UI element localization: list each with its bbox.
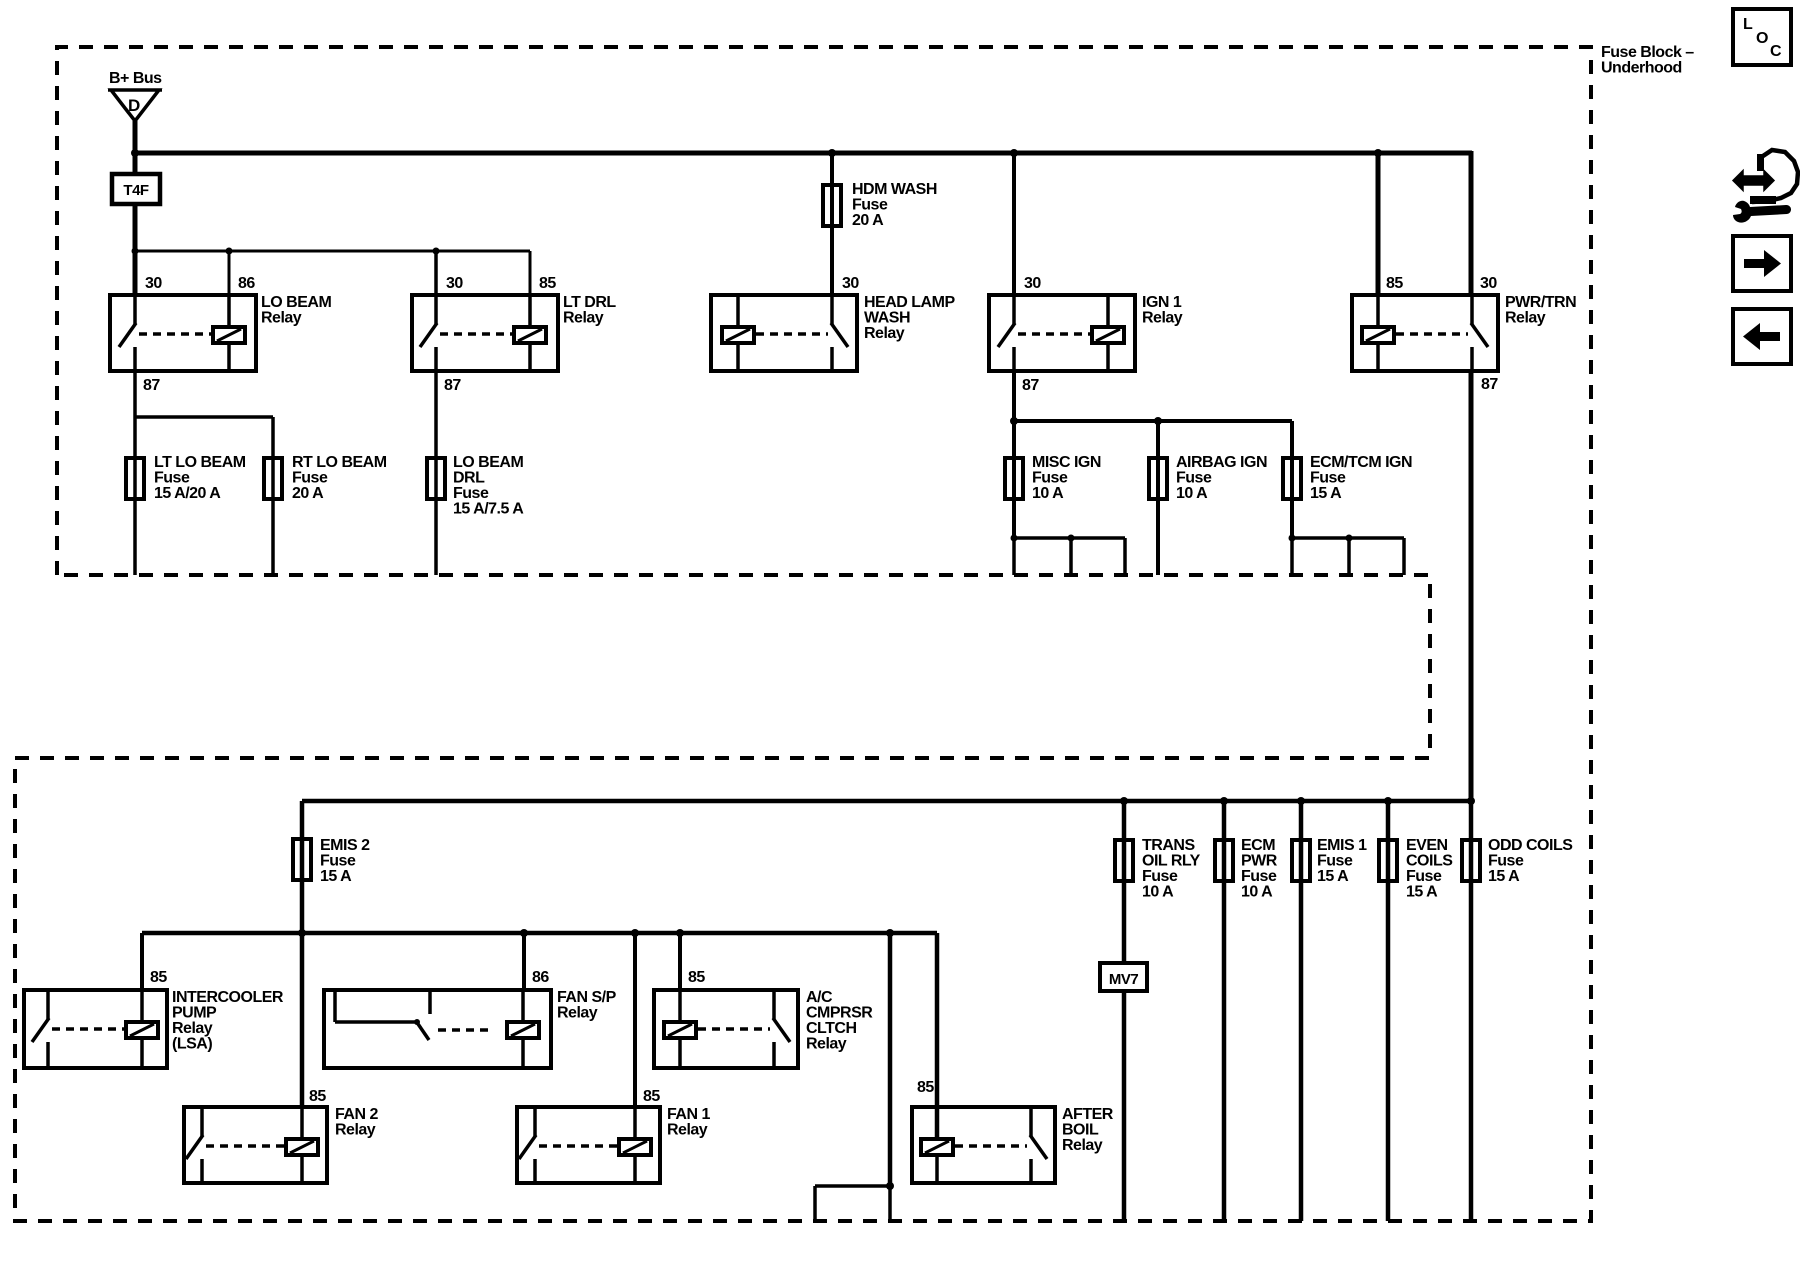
svg-text:CMPRSR: CMPRSR bbox=[806, 1005, 873, 1022]
relay FAN 1 coil (pin 85) bbox=[633, 1107, 637, 1139]
svg-text:HDM WASH: HDM WASH bbox=[852, 181, 937, 198]
svg-text:30: 30 bbox=[145, 275, 162, 292]
svg-text:Fuse: Fuse bbox=[1317, 853, 1353, 870]
relay LT DRL switch (pin 30/87) bbox=[434, 295, 438, 324]
relay IGN 1 (box) bbox=[989, 295, 1135, 371]
relay A/C CMPRSR CLTCH link bbox=[698, 1027, 770, 1031]
svg-text:Relay: Relay bbox=[172, 1020, 213, 1037]
fuse EMIS 1 15 A bbox=[1292, 840, 1310, 881]
junction: coil bus at A/C CMPRSR bbox=[676, 929, 684, 937]
svg-text:Fuse: Fuse bbox=[1241, 868, 1277, 885]
svg-text:85: 85 bbox=[643, 1088, 660, 1105]
fuse EMIS 2 15 A bbox=[293, 839, 311, 880]
svg-text:LT DRL: LT DRL bbox=[563, 294, 616, 311]
svg-text:C: C bbox=[1770, 43, 1782, 60]
svg-text:Relay: Relay bbox=[806, 1036, 847, 1053]
junction: sub-bus at LO BEAM pin 86 bbox=[226, 248, 233, 255]
svg-text:10 A: 10 A bbox=[1142, 884, 1174, 901]
svg-text:ODD COILS: ODD COILS bbox=[1488, 837, 1573, 854]
relay LT DRL link bbox=[440, 332, 512, 336]
wire: ECM/TCM fork leg 1 bbox=[1290, 538, 1294, 575]
node D triangle (B+ Bus) bbox=[108, 90, 162, 121]
wire: MISC IGN fork leg 1 bbox=[1012, 538, 1016, 575]
relay A/C CMPRSR CLTCH coil (pin 85) bbox=[678, 990, 682, 1022]
svg-text:LO BEAM: LO BEAM bbox=[261, 294, 331, 311]
svg-text:15 A: 15 A bbox=[1317, 868, 1349, 885]
svg-text:AIRBAG IGN: AIRBAG IGN bbox=[1176, 454, 1267, 471]
relay INTERCOOLER PUMP (box) bbox=[24, 990, 167, 1068]
fuse ECM PWR 10 A bbox=[1215, 840, 1233, 881]
wire: B+ triangle down to main bus bbox=[133, 121, 138, 176]
relay LT DRL coil (pin 85) bbox=[528, 295, 532, 327]
svg-text:15 A/7.5 A: 15 A/7.5 A bbox=[453, 501, 524, 518]
service/rework icon (double arrow, curve, wrench) bbox=[1733, 171, 1774, 191]
relay INTERCOOLER PUMP link bbox=[52, 1027, 124, 1031]
svg-text:10 A: 10 A bbox=[1176, 485, 1208, 502]
svg-text:87: 87 bbox=[444, 377, 461, 394]
svg-text:Fuse: Fuse bbox=[320, 853, 356, 870]
svg-text:D: D bbox=[128, 96, 140, 115]
junction: coil bus at connector branch bbox=[886, 929, 894, 937]
LOC icon box bbox=[1733, 9, 1791, 65]
wire: MISC IGN fork leg 3 bbox=[1123, 538, 1127, 575]
junction: coil bus at FAN S/P bbox=[520, 929, 528, 937]
svg-text:30: 30 bbox=[1024, 275, 1041, 292]
svg-text:85: 85 bbox=[309, 1088, 326, 1105]
svg-text:10 A: 10 A bbox=[1241, 884, 1273, 901]
junction: B+ bus at T4F drop bbox=[131, 149, 139, 157]
wire: lower feed bus bbox=[302, 799, 1471, 804]
wire: lower bus through EMIS 2 fuse to FAN 2 coil bbox=[300, 801, 305, 1109]
fuse LO BEAM DRL 15 A/7.5 A bbox=[427, 458, 445, 499]
relay IGN 1 coil bbox=[1106, 295, 1110, 327]
connector MV7 bbox=[1100, 963, 1147, 991]
junction: IGN feed at MISC IGN bbox=[1010, 417, 1018, 425]
relay INTERCOOLER PUMP coil (pin 85) bbox=[140, 990, 144, 1022]
svg-text:85: 85 bbox=[688, 969, 705, 986]
wire: IGN 1 pin 87 down bbox=[1012, 371, 1016, 421]
relay FAN 1 link bbox=[539, 1144, 619, 1148]
relay LO BEAM (box) bbox=[110, 295, 256, 371]
svg-text:15 A/20 A: 15 A/20 A bbox=[154, 485, 221, 502]
svg-text:FAN 2: FAN 2 bbox=[335, 1106, 378, 1123]
svg-text:ECM/TCM IGN: ECM/TCM IGN bbox=[1310, 454, 1412, 471]
junction: lower bus at EVEN COILS bbox=[1384, 797, 1392, 805]
svg-text:Fuse Block –: Fuse Block – bbox=[1601, 44, 1694, 61]
relay PWR/TRN switch (pin 30/87) bbox=[1470, 295, 1474, 324]
junction: B+ bus at HDM WASH fuse bbox=[828, 149, 836, 157]
svg-text:10 A: 10 A bbox=[1032, 485, 1064, 502]
wire: relay coil bus bbox=[142, 931, 937, 936]
junction: connector fork bbox=[886, 1182, 894, 1190]
wire: coil bus to A/C CMPRSR pin 85 bbox=[678, 933, 682, 992]
svg-text:PUMP: PUMP bbox=[172, 1005, 217, 1022]
svg-text:30: 30 bbox=[842, 275, 859, 292]
junction: sub-bus at LT DRL pin 30 bbox=[433, 248, 440, 255]
wire: MISC IGN fork bbox=[1014, 536, 1125, 540]
svg-text:87: 87 bbox=[1022, 377, 1039, 394]
relay HEAD LAMP WASH coil bbox=[736, 295, 740, 327]
junction: B+ bus at PWR/TRN coil bbox=[1374, 149, 1382, 157]
relay FAN S/P coil (pin 86) bbox=[521, 990, 525, 1022]
relay AFTER BOIL (box) bbox=[912, 1107, 1055, 1183]
svg-text:Fuse: Fuse bbox=[1488, 853, 1524, 870]
wire: LO BEAM pin 87 down (through LT LO BEAM fuse) bbox=[133, 371, 137, 575]
relay FAN S/P link bbox=[438, 1028, 491, 1032]
arrow icon (left) bbox=[1733, 309, 1791, 364]
relay FAN 2 coil (pin 85) bbox=[300, 1107, 304, 1139]
svg-text:COILS: COILS bbox=[1406, 853, 1453, 870]
wire: coil bus to FAN S/P pin 86 bbox=[522, 933, 526, 992]
wire: fork to RT LO BEAM fuse bbox=[135, 415, 273, 419]
svg-text:Fuse: Fuse bbox=[1310, 470, 1346, 487]
relay FAN S/P (box) bbox=[324, 990, 551, 1068]
svg-text:MISC IGN: MISC IGN bbox=[1032, 454, 1101, 471]
svg-text:L: L bbox=[1743, 16, 1753, 33]
svg-text:B+ Bus: B+ Bus bbox=[109, 70, 162, 87]
junction: lower bus at EMIS 1 bbox=[1297, 797, 1305, 805]
svg-text:86: 86 bbox=[238, 275, 255, 292]
svg-text:T4F: T4F bbox=[123, 182, 149, 199]
wire: sub-bus to LT DRL pin 30 bbox=[434, 251, 438, 297]
relay AFTER BOIL link bbox=[955, 1144, 1027, 1148]
wire: bus corner down to PWR/TRN relay pin 30 bbox=[1469, 151, 1474, 297]
svg-text:Relay: Relay bbox=[667, 1122, 708, 1139]
relay HEAD LAMP WASH link bbox=[756, 332, 828, 336]
wire: ECM/TCM IGN fork bbox=[1292, 536, 1404, 540]
svg-text:Fuse: Fuse bbox=[1142, 868, 1178, 885]
svg-text:WASH: WASH bbox=[864, 310, 910, 327]
relay FAN 2 switch bbox=[200, 1107, 204, 1136]
wire: bus to IGN 1 relay pin 30 bbox=[1012, 153, 1016, 297]
svg-text:Relay: Relay bbox=[261, 310, 302, 327]
relay LO BEAM switch (pin 30/87) bbox=[133, 295, 137, 324]
wire: coil sub-bus bbox=[135, 250, 530, 253]
svg-text:CLTCH: CLTCH bbox=[806, 1020, 857, 1037]
fuse TRANS OIL RLY 10 A bbox=[1115, 840, 1133, 881]
svg-text:30: 30 bbox=[1480, 275, 1497, 292]
wire: bus to PWR/TRN relay pin 85 bbox=[1376, 153, 1381, 297]
junction: MISC IGN fork a bbox=[1011, 535, 1018, 542]
fuse ECM/TCM IGN 15 A bbox=[1283, 458, 1301, 499]
junction: sub-bus at pin 30 drop bbox=[132, 248, 139, 255]
relay INTERCOOLER PUMP switch bbox=[46, 990, 50, 1019]
wire: sub-bus to LO BEAM pin 86 bbox=[228, 251, 231, 297]
relay AFTER BOIL coil (pin 85) bbox=[935, 1107, 939, 1139]
svg-text:(LSA): (LSA) bbox=[172, 1036, 212, 1053]
wire: PWR/TRN pin 87 down to lower bus bbox=[1469, 371, 1474, 801]
svg-text:Fuse: Fuse bbox=[453, 485, 489, 502]
relay FAN 1 (box) bbox=[517, 1107, 660, 1183]
wire: feed to MISC IGN fuse fork bbox=[1012, 421, 1016, 538]
svg-text:HEAD LAMP: HEAD LAMP bbox=[864, 294, 955, 311]
relay LT DRL (box) bbox=[412, 295, 558, 371]
svg-text:Relay: Relay bbox=[1142, 310, 1183, 327]
wire: lower bus through EMIS 1 fuse to connector bbox=[1299, 801, 1304, 1221]
svg-text:BOIL: BOIL bbox=[1062, 1122, 1099, 1139]
svg-text:30: 30 bbox=[446, 275, 463, 292]
svg-text:15 A: 15 A bbox=[1488, 868, 1520, 885]
fuse LT LO BEAM 15 A/20 A bbox=[126, 458, 144, 499]
wire: lower bus through EVEN COILS fuse to connector bbox=[1386, 801, 1391, 1221]
svg-text:INTERCOOLER: INTERCOOLER bbox=[172, 989, 284, 1006]
svg-text:Relay: Relay bbox=[864, 325, 905, 342]
junction: lower bus at TRANS OIL RLY bbox=[1120, 797, 1128, 805]
svg-text:85: 85 bbox=[1386, 275, 1403, 292]
relay PWR/TRN (box) bbox=[1352, 295, 1498, 371]
svg-text:20 A: 20 A bbox=[292, 485, 324, 502]
svg-text:EMIS 1: EMIS 1 bbox=[1317, 837, 1367, 854]
relay FAN S/P input path bbox=[333, 990, 337, 1022]
junction: IGN feed at AIRBAG IGN bbox=[1154, 417, 1162, 425]
svg-text:FAN 1: FAN 1 bbox=[667, 1106, 710, 1123]
junction: MISC IGN fork b bbox=[1068, 535, 1075, 542]
relay HEAD LAMP WASH (box) bbox=[711, 295, 857, 371]
svg-text:PWR/TRN: PWR/TRN bbox=[1505, 294, 1576, 311]
wire: lower bus through ECM PWR fuse to connector bbox=[1222, 801, 1227, 1221]
junction: ECM/TCM fork a bbox=[1289, 535, 1296, 542]
svg-text:87: 87 bbox=[1481, 376, 1498, 393]
wire: bus to HEAD LAMP WASH relay pin 30 (through fuse) bbox=[830, 153, 834, 297]
wire: connector fork leg 2 bbox=[888, 1186, 892, 1221]
wire: coil bus branch to connector fork bbox=[888, 933, 893, 1186]
junction: coil bus at FAN 1 bbox=[631, 929, 639, 937]
relay HEAD LAMP WASH switch (pin 30) bbox=[830, 295, 834, 324]
wire: connector fork horizontal bbox=[815, 1184, 890, 1188]
svg-text:RT LO BEAM: RT LO BEAM bbox=[292, 454, 387, 471]
svg-text:Fuse: Fuse bbox=[154, 470, 190, 487]
wire: ECM/TCM fork leg 3 bbox=[1402, 538, 1406, 575]
junction: lower bus at ECM PWR bbox=[1220, 797, 1228, 805]
svg-text:FAN S/P: FAN S/P bbox=[557, 989, 617, 1006]
arrow icon (right) bbox=[1733, 236, 1791, 291]
wire: LT DRL pin 87 down (through LO BEAM DRL fuse) bbox=[434, 371, 438, 575]
wire: feed to AIRBAG IGN fuse and connector bbox=[1156, 421, 1160, 575]
svg-text:Relay: Relay bbox=[335, 1122, 376, 1139]
svg-text:87: 87 bbox=[143, 377, 160, 394]
svg-text:Fuse: Fuse bbox=[292, 470, 328, 487]
svg-text:Fuse: Fuse bbox=[1176, 470, 1212, 487]
svg-text:Underhood: Underhood bbox=[1601, 60, 1682, 77]
fuse HDM WASH 20 A bbox=[823, 185, 841, 226]
relay IGN 1 switch (pin 30/87) bbox=[1012, 295, 1016, 324]
wire: MISC IGN fork leg 2 bbox=[1069, 538, 1073, 575]
svg-text:OIL RLY: OIL RLY bbox=[1142, 853, 1201, 870]
svg-text:IGN 1: IGN 1 bbox=[1142, 294, 1182, 311]
wire: coil bus down to AFTER BOIL coil bbox=[935, 933, 940, 1137]
relay A/C CMPRSR CLTCH switch bbox=[772, 990, 776, 1019]
relay FAN S/P blade bbox=[416, 1021, 429, 1040]
svg-text:20 A: 20 A bbox=[852, 212, 884, 229]
svg-text:ECM: ECM bbox=[1241, 837, 1275, 854]
fuse ODD COILS 15 A bbox=[1462, 840, 1480, 881]
svg-text:85: 85 bbox=[917, 1079, 934, 1096]
wire: T4F to LO BEAM relay pin 30 bbox=[133, 204, 138, 297]
svg-text:MV7: MV7 bbox=[1109, 971, 1139, 988]
svg-text:AFTER: AFTER bbox=[1062, 1106, 1114, 1123]
relay PWR/TRN coil (pin 85) bbox=[1376, 295, 1380, 327]
relay IGN 1 link bbox=[1018, 332, 1090, 336]
wire: ECM/TCM fork leg 2 bbox=[1347, 538, 1351, 575]
connector T4F bbox=[112, 174, 160, 204]
wire: MV7 to connector bbox=[1122, 991, 1127, 1221]
junction: B+ bus at IGN 1 relay bbox=[1010, 149, 1018, 157]
svg-text:85: 85 bbox=[539, 275, 556, 292]
junction: coil bus at EMIS 2 wire bbox=[298, 929, 306, 937]
svg-text:Relay: Relay bbox=[557, 1005, 598, 1022]
relay AFTER BOIL switch bbox=[1029, 1107, 1033, 1136]
relay FAN S/P contact stub bbox=[428, 990, 432, 1014]
svg-text:DRL: DRL bbox=[453, 470, 485, 487]
svg-text:Relay: Relay bbox=[1062, 1137, 1103, 1154]
svg-text:TRANS: TRANS bbox=[1142, 837, 1195, 854]
wire: coil bus to FAN 1 pin 85 bbox=[633, 933, 637, 1109]
fuse EVEN COILS 15 A bbox=[1379, 840, 1397, 881]
relay LO BEAM coil (pin 86) bbox=[227, 295, 231, 327]
svg-text:LT LO BEAM: LT LO BEAM bbox=[154, 454, 246, 471]
svg-text:PWR: PWR bbox=[1241, 853, 1278, 870]
wire: coil bus down to INTERCOOLER PUMP coil bbox=[140, 933, 144, 992]
junction: lower bus at ODD COILS bbox=[1467, 797, 1475, 805]
svg-text:A/C: A/C bbox=[806, 989, 833, 1006]
svg-text:O: O bbox=[1756, 30, 1768, 47]
fuse RT LO BEAM 20 A bbox=[264, 458, 282, 499]
svg-text:EVEN: EVEN bbox=[1406, 837, 1448, 854]
relay PWR/TRN link bbox=[1396, 332, 1468, 336]
fuse block dashed outline (Fuse Block - Underhood) bbox=[15, 47, 1591, 1221]
svg-text:Relay: Relay bbox=[563, 310, 604, 327]
relay FAN 2 link bbox=[206, 1144, 285, 1148]
junction: ECM/TCM fork b bbox=[1346, 535, 1353, 542]
svg-text:86: 86 bbox=[532, 969, 549, 986]
relay LO BEAM link bbox=[139, 332, 211, 336]
svg-text:15 A: 15 A bbox=[1406, 884, 1438, 901]
fuse MISC IGN 10 A bbox=[1005, 458, 1023, 499]
svg-text:Fuse: Fuse bbox=[852, 197, 888, 214]
wire: lower bus through ODD COILS fuse to connector bbox=[1469, 801, 1474, 1221]
svg-text:Relay: Relay bbox=[1505, 310, 1546, 327]
relay A/C CMPRSR CLTCH (box) bbox=[654, 990, 798, 1068]
fuse AIRBAG IGN 10 A bbox=[1149, 458, 1167, 499]
svg-text:LO BEAM: LO BEAM bbox=[453, 454, 523, 471]
svg-text:15 A: 15 A bbox=[1310, 485, 1342, 502]
svg-text:15 A: 15 A bbox=[320, 868, 352, 885]
svg-text:EMIS 2: EMIS 2 bbox=[320, 837, 370, 854]
relay FAN 2 (box) bbox=[184, 1107, 327, 1183]
wire: lower bus through TRANS OIL RLY fuse to MV7 bbox=[1122, 801, 1127, 965]
wire: feed to ECM/TCM IGN fuse fork bbox=[1290, 421, 1294, 538]
wire: IGN fuse feed bus bbox=[1014, 419, 1292, 423]
svg-text:Fuse: Fuse bbox=[1032, 470, 1068, 487]
svg-text:85: 85 bbox=[150, 969, 167, 986]
wire: main B+ bus (horizontal) bbox=[135, 151, 1472, 156]
relay FAN 1 switch bbox=[533, 1107, 537, 1136]
wire: connector fork leg 1 bbox=[813, 1186, 817, 1221]
svg-text:Fuse: Fuse bbox=[1406, 868, 1442, 885]
